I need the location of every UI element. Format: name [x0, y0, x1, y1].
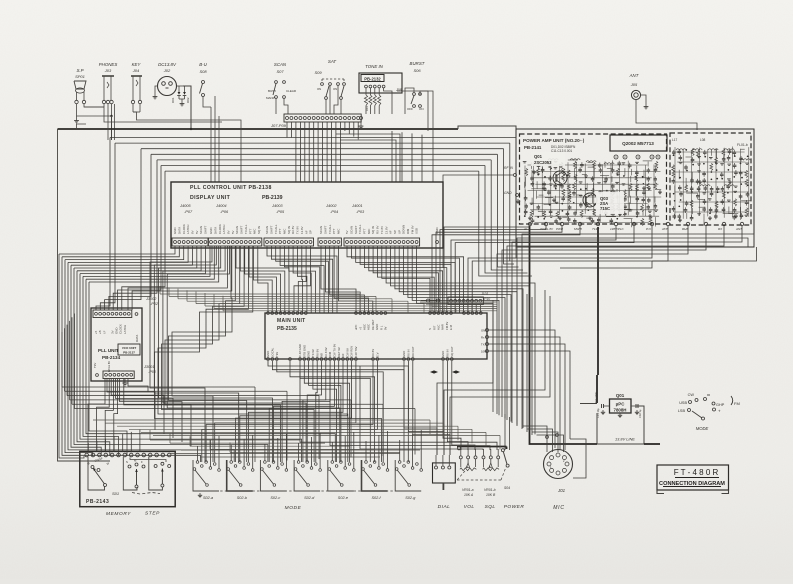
- wire: [264, 444, 266, 461]
- wire: [391, 131, 393, 182]
- svg-text:RX IN: RX IN: [446, 350, 450, 357]
- wire: [276, 246, 329, 313]
- svg-text:J4002: J4002: [325, 203, 337, 208]
- svg-text:138 T9V: 138 T9V: [354, 346, 358, 357]
- wire: [475, 305, 477, 313]
- wire: [408, 361, 444, 455]
- wire: [564, 436, 566, 450]
- svg-text:B-U: B-U: [199, 62, 207, 67]
- wire: [167, 246, 340, 462]
- label backing Q01 2SC2053: [531, 152, 565, 166]
- wire: [311, 437, 313, 467]
- wire: [467, 305, 469, 313]
- wire bus: [157, 159, 491, 161]
- svg-text:L/CAL 8V: L/CAL 8V: [107, 361, 111, 372]
- svg-text:SP01: SP01: [75, 74, 85, 79]
- wire bus: [223, 310, 472, 312]
- svg-text:PB-2139: PB-2139: [262, 195, 283, 201]
- wire: [455, 226, 634, 297]
- ground near PLL unit: [124, 379, 126, 383]
- svg-text:R01: R01: [365, 106, 369, 111]
- wire bus: [72, 403, 383, 405]
- wire trunk left wrap: [58, 129, 111, 461]
- wire: [197, 446, 199, 461]
- svg-text:L17: L17: [672, 138, 678, 142]
- diode D01: [178, 86, 180, 92]
- wire: [489, 344, 565, 436]
- wire: [313, 122, 315, 182]
- capacitor C02: [631, 405, 637, 407]
- unit PLL UNIT PB-2134: [91, 308, 142, 381]
- svg-text:-P05: -P05: [276, 209, 285, 214]
- svg-text:P.O: P.O: [646, 227, 651, 231]
- wire: [364, 246, 446, 313]
- svg-text:J4003: J4003: [271, 203, 283, 208]
- svg-text:SQ IN: SQ IN: [257, 226, 261, 234]
- svg-text:FL01-b: FL01-b: [737, 143, 748, 147]
- wire bus: [181, 449, 420, 451]
- unit POWER AMP UNIT PB-2141 dashed: [520, 134, 667, 224]
- wire: [322, 122, 324, 182]
- wire: [330, 369, 490, 450]
- wire: [297, 246, 307, 313]
- resistors below PB-2132: [365, 88, 367, 95]
- svg-text:ON: ON: [333, 87, 337, 91]
- svg-text:AL: AL: [523, 227, 528, 231]
- wire: [89, 246, 219, 282]
- wire: [335, 122, 337, 182]
- wire bus: [62, 386, 255, 388]
- svg-text:J07-P09: J07-P09: [270, 123, 287, 128]
- wire: [373, 246, 438, 313]
- wire: [258, 246, 268, 313]
- wire: [210, 107, 212, 182]
- wire bus: [115, 142, 510, 144]
- switch S02-c: [260, 460, 286, 491]
- wire: [74, 246, 197, 268]
- svg-text:I.F: I.F: [102, 330, 106, 334]
- svg-text:ANT: ANT: [629, 73, 639, 78]
- svg-text:SAT: SAT: [328, 59, 337, 64]
- wire: [437, 300, 493, 455]
- transistor Q03 2SA715C: [583, 193, 597, 207]
- svg-text:USB: USB: [679, 401, 687, 405]
- wire: [77, 246, 201, 271]
- wire bus: [160, 293, 360, 295]
- svg-text:10M: 10M: [481, 349, 487, 353]
- wire bus: [151, 153, 497, 155]
- wire: [420, 430, 422, 469]
- wire: [89, 282, 127, 456]
- corner notch right: [722, 490, 729, 494]
- wire: [489, 351, 570, 439]
- svg-text:SQL: SQL: [485, 504, 496, 510]
- wire: [236, 361, 352, 462]
- wire: [378, 435, 380, 467]
- svg-text:PB-2137: PB-2137: [123, 351, 135, 355]
- wire: [254, 387, 256, 462]
- wire: [218, 436, 220, 469]
- wire: [316, 361, 317, 462]
- wire: [113, 160, 157, 310]
- diode D2 below main unit: [452, 370, 456, 373]
- svg-text:J04: J04: [132, 68, 140, 73]
- svg-text:J03: J03: [104, 68, 112, 73]
- wire: [399, 440, 401, 461]
- wire: [286, 122, 288, 138]
- wire: [243, 439, 245, 467]
- svg-text:BUSY: BUSY: [268, 89, 276, 93]
- wire: [472, 226, 668, 313]
- connector MIC J01: [544, 450, 573, 479]
- wire: [97, 379, 110, 451]
- svg-text:T9V: T9V: [93, 363, 97, 368]
- wire bus: [170, 442, 325, 444]
- wire: [128, 379, 148, 392]
- svg-text:PHONES: PHONES: [99, 62, 118, 67]
- svg-text:LATCH: LATCH: [123, 325, 127, 334]
- wire: [412, 434, 414, 467]
- wire: [150, 246, 212, 462]
- ground: [154, 94, 156, 97]
- wire: [458, 305, 460, 313]
- header J07-P09: [284, 114, 361, 122]
- main unit top pins: [267, 312, 270, 315]
- svg-text:DIAL: DIAL: [438, 504, 451, 510]
- wire: [290, 361, 375, 462]
- wire: [404, 361, 437, 455]
- wire: [443, 361, 461, 450]
- wire: [132, 246, 232, 310]
- svg-text:VR01-b: VR01-b: [484, 488, 496, 492]
- svg-text:PLL CONTROL UNIT PB-2138: PLL CONTROL UNIT PB-2138: [190, 185, 272, 191]
- wire: [71, 246, 192, 265]
- ground: [645, 104, 647, 107]
- wire 13.8V: [530, 226, 598, 444]
- wire bus: [153, 435, 500, 437]
- header J3002-P02: [93, 310, 132, 318]
- wire: [249, 246, 276, 313]
- PA bottom pins: [528, 222, 531, 225]
- wire: [452, 361, 475, 450]
- wire: [105, 439, 107, 452]
- wire: [109, 154, 151, 310]
- wire: [432, 226, 580, 313]
- wire bus: [93, 419, 430, 421]
- wire to mic: [528, 429, 553, 452]
- svg-text:T9V: T9V: [275, 352, 279, 357]
- switch S02-d: [294, 460, 320, 491]
- gang dashes memory: [132, 493, 160, 495]
- wire: [114, 379, 118, 451]
- wire: [468, 226, 652, 313]
- svg-text:DATA: DATA: [135, 335, 139, 342]
- diode D below main unit: [430, 370, 434, 373]
- wire 13.8V vertical: [597, 227, 599, 375]
- gang dashes: [211, 490, 414, 492]
- svg-text:ATP: ATP: [661, 227, 668, 231]
- svg-text:SCAN: SCAN: [274, 62, 287, 67]
- switch step mid: [123, 457, 137, 490]
- diode D02: [184, 86, 186, 92]
- wire: [111, 379, 164, 434]
- svg-text:S02-a: S02-a: [203, 496, 213, 500]
- wire: [382, 246, 430, 313]
- wire: [301, 246, 304, 313]
- wire bus: [129, 428, 472, 430]
- wire: [300, 361, 370, 462]
- svg-text:MIC: MIC: [553, 505, 565, 511]
- wire: [84, 104, 104, 107]
- wire: [59, 254, 84, 458]
- wire: [512, 226, 742, 423]
- wire: [360, 246, 451, 313]
- dashed filter box: [670, 133, 751, 225]
- wire: [240, 246, 284, 313]
- wire: [308, 122, 310, 182]
- svg-text:E.V: E.V: [376, 352, 380, 357]
- wire: [218, 116, 220, 182]
- wire: [299, 122, 301, 182]
- wire: [344, 122, 346, 131]
- wire: [284, 246, 319, 313]
- svg-text:+: +: [718, 409, 721, 414]
- wire: [158, 246, 348, 462]
- svg-text:GHP: GHP: [716, 403, 725, 407]
- svg-text:-P03: -P03: [356, 209, 365, 214]
- svg-text:OFF: OFF: [407, 107, 413, 111]
- svg-text:RX 8V: RX 8V: [371, 349, 375, 357]
- wire bus: [200, 456, 380, 458]
- main unit bottom pins: [267, 358, 270, 361]
- pin + ground right of header: [360, 117, 363, 120]
- wire: [334, 246, 369, 313]
- wire bus: [214, 307, 456, 309]
- wire: [115, 379, 173, 438]
- svg-text:DISPLAY UNIT: DISPLAY UNIT: [190, 195, 231, 201]
- wire: [303, 361, 326, 462]
- wire: [272, 361, 404, 462]
- wire: [444, 226, 530, 313]
- ground: [76, 118, 78, 121]
- svg-text:DC13.8V: DC13.8V: [158, 62, 177, 67]
- main unit right pins: [486, 329, 489, 332]
- wire bus: [190, 445, 350, 447]
- wire: [414, 409, 416, 455]
- svg-text:LOCAL: LOCAL: [271, 347, 275, 357]
- svg-text:L08: L08: [700, 138, 706, 142]
- svg-text:VCO UNIT: VCO UNIT: [122, 346, 137, 350]
- wire: [450, 305, 452, 313]
- svg-text:MW 8: MW 8: [574, 227, 582, 231]
- corner notch left: [657, 490, 664, 494]
- wire: [391, 246, 530, 431]
- wire bus: [117, 425, 458, 427]
- wire: [353, 122, 355, 137]
- wire: [331, 122, 333, 182]
- svg-text:PB-2143: PB-2143: [86, 499, 109, 505]
- header J101-P10: [448, 297, 483, 305]
- wire: [202, 361, 378, 462]
- wire: [84, 107, 222, 122]
- wire: [61, 332, 63, 387]
- wire: [139, 430, 141, 452]
- wire: [107, 116, 109, 140]
- svg-text:-P07: -P07: [184, 209, 193, 214]
- 13.8V line loop: [597, 406, 644, 444]
- wire: [357, 122, 359, 139]
- wire: [65, 246, 184, 260]
- wire: [74, 268, 268, 462]
- wire: [162, 246, 315, 462]
- wire: [80, 246, 205, 274]
- svg-text:ON: ON: [419, 107, 424, 111]
- wire: [413, 361, 450, 455]
- wire bus: [105, 422, 444, 424]
- svg-text:CLEAR: CLEAR: [286, 89, 297, 93]
- wire: [531, 297, 533, 435]
- svg-text:CW: CW: [688, 393, 695, 397]
- wire: [86, 279, 335, 462]
- svg-text:SHIFT: SHIFT: [204, 225, 208, 234]
- wire: [248, 361, 343, 462]
- wire: [298, 246, 306, 313]
- switch POWER S04: [501, 449, 504, 452]
- wire: [458, 126, 516, 143]
- wire: [471, 305, 473, 313]
- transistor Q01 2SC2053: [553, 171, 567, 185]
- wire: [369, 246, 443, 313]
- svg-text:S: S: [126, 460, 128, 464]
- wire bus: [67, 395, 319, 397]
- wire: [245, 246, 281, 313]
- switch S02-g: [395, 460, 421, 491]
- svg-text:TX/DL.8V: TX/DL.8V: [540, 227, 554, 231]
- wire: [348, 122, 350, 134]
- wire: [77, 115, 112, 117]
- svg-text:J01: J01: [557, 488, 566, 493]
- svg-text:POWER AMP UNIT (NO.20··): POWER AMP UNIT (NO.20··): [523, 138, 585, 143]
- wire: [387, 431, 389, 469]
- pot VR01-b SQL: [482, 456, 485, 459]
- svg-text:PB-2141: PB-2141: [524, 145, 542, 150]
- wire: [344, 436, 346, 467]
- svg-text:S02-f: S02-f: [372, 496, 382, 500]
- wire: [268, 361, 408, 462]
- gang link: [322, 78, 344, 80]
- wire: [350, 400, 352, 458]
- wire: [325, 246, 360, 313]
- svg-text:USB: USB: [415, 228, 419, 234]
- wire: [353, 432, 355, 469]
- wire: [479, 171, 532, 276]
- svg-text:PB-2135: PB-2135: [277, 326, 297, 332]
- wire bus: [230, 451, 400, 453]
- svg-text:7808H: 7808H: [614, 408, 627, 413]
- wire: [71, 265, 101, 456]
- wire: [252, 435, 254, 469]
- svg-text:VOL: VOL: [464, 504, 475, 510]
- svg-text:RHB: RHB: [682, 227, 688, 231]
- wire: [118, 166, 162, 311]
- wire: [489, 337, 560, 433]
- wire 13.8V to power sw: [457, 446, 507, 448]
- wire to power sw: [504, 414, 506, 450]
- switch S02-a: [193, 460, 219, 491]
- svg-text:9V: 9V: [384, 326, 388, 330]
- wire: [377, 246, 434, 313]
- svg-text:Q2002 M57713: Q2002 M57713: [622, 141, 654, 146]
- wire: [159, 246, 273, 462]
- wire: [497, 154, 518, 267]
- header J4001-P03: [344, 238, 420, 246]
- wire: [554, 430, 556, 448]
- svg-text:-P04: -P04: [330, 209, 339, 214]
- svg-text:J4001: J4001: [351, 203, 363, 208]
- svg-text:STEP: STEP: [145, 511, 160, 517]
- memory pins: [85, 453, 89, 457]
- wire bus: [210, 448, 375, 450]
- box VCO UNIT PB-2137: [118, 344, 140, 355]
- switch S02-e: [328, 460, 354, 491]
- wire: [271, 246, 332, 313]
- PA components: [523, 161, 527, 163]
- unit PB-2143 MEMORY STEP: [80, 451, 175, 506]
- svg-text:C02 1μ: C02 1μ: [638, 409, 642, 418]
- header J4002-P04: [318, 238, 341, 246]
- wire: [395, 246, 523, 428]
- wire: [338, 246, 372, 313]
- wire bus: [110, 137, 516, 139]
- svg-text:GND: GND: [481, 328, 487, 332]
- wire bus: [65, 390, 288, 392]
- wire: [463, 305, 465, 313]
- wire: [83, 276, 118, 456]
- svg-text:S06: S06: [413, 68, 421, 73]
- wire: [87, 443, 89, 452]
- wire: [485, 166, 528, 274]
- wire: [526, 294, 528, 432]
- svg-text:S09: S09: [314, 70, 322, 75]
- svg-text:ON: ON: [317, 87, 321, 91]
- wire: [62, 257, 201, 462]
- wire: [505, 138, 516, 259]
- wire bus: [70, 399, 352, 401]
- wire: [421, 135, 423, 182]
- wire: [502, 226, 706, 417]
- wire: [336, 134, 400, 182]
- wire: [74, 314, 76, 409]
- label backing Q03: [596, 192, 624, 214]
- svg-text:PLL UNIT: PLL UNIT: [98, 348, 119, 353]
- wire: [65, 260, 93, 456]
- svg-text:RX OUT: RX OUT: [411, 346, 415, 357]
- svg-text:MANP: MANP: [266, 96, 275, 100]
- svg-text:S07: S07: [276, 69, 284, 74]
- svg-text:FM: FM: [734, 401, 740, 406]
- knob lever: [692, 411, 702, 418]
- wire: [307, 361, 321, 462]
- svg-text:VR01-a: VR01-a: [462, 488, 474, 492]
- wire bus: [169, 295, 376, 297]
- wire: [401, 132, 403, 182]
- svg-text:S02-c: S02-c: [270, 496, 280, 500]
- wire: [339, 122, 341, 182]
- wire: [71, 317, 73, 404]
- wire: [317, 122, 319, 182]
- svg-text:μPC: μPC: [616, 402, 626, 407]
- wire: [491, 160, 523, 270]
